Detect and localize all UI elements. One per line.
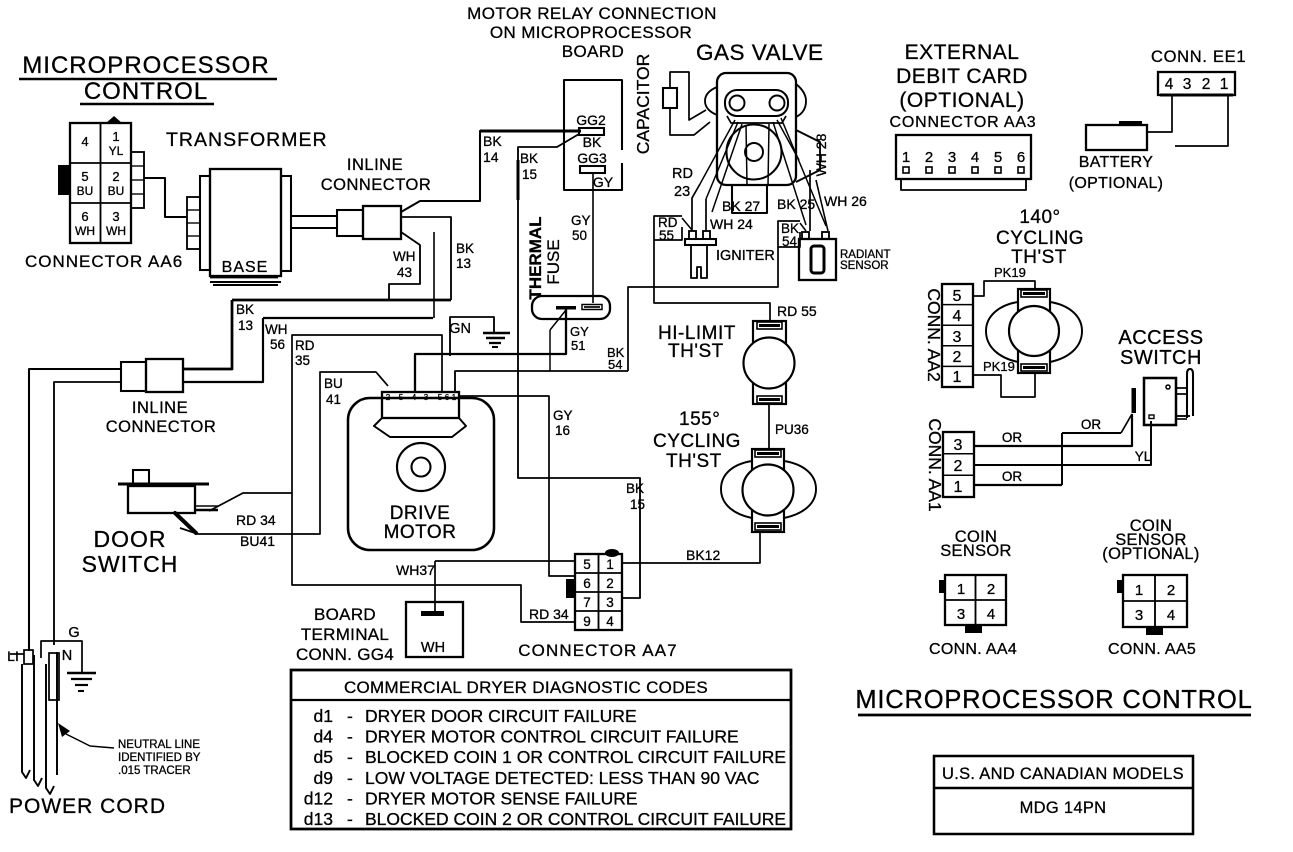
label 155 CYCLING TH'ST bbox=[653, 409, 741, 472]
svg-text:d12: d12 bbox=[304, 788, 333, 808]
svg-text:d5: d5 bbox=[314, 747, 333, 767]
svg-text:3: 3 bbox=[424, 393, 429, 402]
svg-text:SENSOR: SENSOR bbox=[940, 542, 1011, 560]
svg-text:EXTERNAL: EXTERNAL bbox=[905, 41, 1020, 64]
svg-text:d1: d1 bbox=[314, 706, 333, 726]
svg-text:G: G bbox=[68, 625, 79, 641]
svg-text:35: 35 bbox=[295, 353, 310, 368]
svg-text:2: 2 bbox=[954, 458, 963, 475]
svg-text:155°: 155° bbox=[679, 409, 720, 430]
svg-text:CONN. AA1: CONN. AA1 bbox=[925, 418, 945, 511]
svg-text:3: 3 bbox=[1183, 76, 1192, 93]
wire WH56 bbox=[183, 232, 434, 382]
label MOTOR RELAY CONNECTION ON MICROPROCESSOR BOARD bbox=[467, 4, 717, 61]
svg-text:4: 4 bbox=[1165, 76, 1174, 93]
svg-text:3: 3 bbox=[957, 606, 965, 623]
wire WH37 bbox=[396, 561, 574, 611]
wire BK15 bbox=[518, 134, 645, 598]
wire WH26 bbox=[816, 180, 867, 231]
svg-text:INLINE: INLINE bbox=[132, 399, 188, 417]
svg-text:d9: d9 bbox=[314, 768, 333, 788]
label COIN SENSOR bbox=[940, 528, 1011, 560]
svg-text:MOTOR: MOTOR bbox=[384, 522, 457, 543]
svg-text:DRIVE: DRIVE bbox=[390, 503, 451, 524]
svg-text:RD: RD bbox=[672, 166, 693, 182]
svg-text:RD 55: RD 55 bbox=[777, 303, 817, 319]
board terminal GG2 bbox=[576, 112, 606, 150]
svg-text:DEBIT CARD: DEBIT CARD bbox=[896, 65, 1028, 88]
svg-text:140°: 140° bbox=[1019, 207, 1060, 228]
svg-text:BK: BK bbox=[583, 134, 602, 150]
svg-text:DRYER MOTOR CONTROL CIRCUIT FA: DRYER MOTOR CONTROL CIRCUIT FAILURE bbox=[365, 727, 739, 747]
svg-text:16: 16 bbox=[555, 423, 570, 438]
svg-text:SENSOR: SENSOR bbox=[840, 260, 889, 272]
svg-text:SWITCH: SWITCH bbox=[1120, 347, 1202, 369]
svg-text:3: 3 bbox=[1135, 607, 1143, 624]
svg-text:(OPTIONAL): (OPTIONAL) bbox=[1102, 545, 1199, 563]
svg-text:CONNECTOR AA6: CONNECTOR AA6 bbox=[25, 252, 183, 271]
gas valve right lobe bbox=[796, 130, 820, 182]
svg-text:6: 6 bbox=[81, 209, 88, 224]
svg-text:13: 13 bbox=[238, 318, 253, 333]
wire PK19 upper (AA2 pin5 to 140 thst) bbox=[973, 265, 1035, 296]
wire OR (AA1 pin1) and riser bbox=[973, 414, 1132, 485]
svg-text:(OPTIONAL): (OPTIONAL) bbox=[1069, 175, 1164, 192]
access switch body bbox=[1132, 369, 1194, 425]
svg-text:4: 4 bbox=[987, 606, 995, 623]
label CONN. AA4 bbox=[929, 641, 1017, 658]
wire RD35 bbox=[292, 335, 442, 493]
svg-text:COMMERCIAL DRYER DIAGNOSTIC CO: COMMERCIAL DRYER DIAGNOSTIC CODES bbox=[344, 678, 708, 697]
label GAS VALVE bbox=[696, 40, 823, 65]
wire RD55 to hi-limit bbox=[654, 240, 817, 322]
connector AA6 grid bbox=[70, 123, 131, 243]
svg-text:WH: WH bbox=[75, 224, 95, 238]
svg-text:CONN. AA5: CONN. AA5 bbox=[1108, 641, 1196, 658]
wire transformer to inline connector bbox=[291, 216, 337, 228]
svg-text:MICROPROCESSOR: MICROPROCESSOR bbox=[22, 52, 269, 79]
svg-text:1: 1 bbox=[112, 129, 119, 144]
svg-text:BU: BU bbox=[77, 184, 94, 198]
gas valve lower pipe bbox=[732, 185, 767, 213]
svg-text:IGNITER: IGNITER bbox=[716, 248, 775, 264]
label INLINE CONNECTOR (upper) bbox=[321, 156, 432, 194]
wire RD34 (door switch to AA7 pin9) bbox=[209, 493, 575, 622]
svg-text:WH 24: WH 24 bbox=[710, 216, 753, 232]
title MICROPROCESSOR CONTROL (bottom right) bbox=[855, 686, 1252, 715]
coin sensor connector AA5 bbox=[1117, 575, 1187, 635]
svg-text:.015 TRACER: .015 TRACER bbox=[118, 765, 191, 777]
transformer BASE label bbox=[210, 259, 281, 285]
svg-text:SWITCH: SWITCH bbox=[82, 551, 179, 577]
transformer T1 body bbox=[187, 169, 291, 276]
inline connector (door) body bbox=[121, 359, 183, 392]
connector AA7 bbox=[566, 549, 622, 630]
svg-text:3: 3 bbox=[953, 329, 962, 346]
svg-text:IDENTIFIED BY: IDENTIFIED BY bbox=[118, 752, 201, 764]
connector AA6 side tab bbox=[131, 152, 144, 208]
wire PK19 lower (AA2 pin1 to 140 thst) bbox=[973, 359, 1035, 397]
svg-text:-: - bbox=[347, 768, 353, 788]
label THERMAL FUSE (vertical) bbox=[526, 216, 563, 299]
svg-text:4: 4 bbox=[412, 393, 417, 402]
svg-text:1: 1 bbox=[452, 393, 457, 402]
svg-text:PK19: PK19 bbox=[994, 265, 1026, 280]
svg-text:WH 26: WH 26 bbox=[824, 193, 867, 209]
svg-text:CONNECTOR: CONNECTOR bbox=[106, 418, 217, 436]
svg-text:55: 55 bbox=[659, 228, 674, 243]
svg-text:WH37: WH37 bbox=[396, 562, 435, 578]
label CONN. AA2 (vertical) bbox=[924, 288, 944, 381]
connector EE1 bbox=[1158, 72, 1235, 95]
wire EE1 pin4 to battery bbox=[1147, 95, 1172, 132]
svg-text:GG3: GG3 bbox=[577, 150, 607, 166]
svg-text:GY: GY bbox=[570, 324, 589, 339]
svg-text:15: 15 bbox=[630, 497, 645, 512]
svg-text:5: 5 bbox=[399, 393, 404, 402]
svg-text:4: 4 bbox=[953, 308, 962, 325]
svg-text:41: 41 bbox=[326, 392, 341, 407]
svg-text:TERMINAL: TERMINAL bbox=[301, 625, 389, 644]
svg-text:LOW VOLTAGE DETECTED: LESS THA: LOW VOLTAGE DETECTED: LESS THAN 90 VAC bbox=[365, 768, 760, 788]
radiant sensor bbox=[799, 232, 890, 280]
label CONNECTOR AA7 bbox=[518, 641, 677, 660]
svg-text:23: 23 bbox=[674, 184, 690, 200]
connector AA3 body bbox=[896, 135, 1031, 190]
svg-text:CONN. EE1: CONN. EE1 bbox=[1151, 48, 1246, 66]
svg-text:5: 5 bbox=[583, 557, 591, 572]
svg-text:BK: BK bbox=[236, 302, 254, 317]
label 140 CYCLING TH'ST bbox=[996, 207, 1084, 268]
gas valve wire fan bbox=[700, 118, 826, 226]
svg-text:RD: RD bbox=[295, 338, 315, 353]
connector AA1 bbox=[943, 432, 974, 497]
wire GY51 leader and label bbox=[550, 310, 589, 371]
svg-text:WH: WH bbox=[393, 249, 416, 264]
label HI-LIMIT TH'ST bbox=[658, 323, 736, 362]
wire BK54 to bus bbox=[607, 247, 778, 372]
wire WH43 bbox=[389, 232, 420, 300]
svg-text:ON MICROPROCESSOR: ON MICROPROCESSOR bbox=[490, 23, 692, 42]
svg-text:BK: BK bbox=[626, 481, 644, 496]
svg-text:TH'ST: TH'ST bbox=[668, 341, 724, 362]
svg-text:14: 14 bbox=[483, 149, 499, 165]
label CONN. AA1 (vertical) bbox=[925, 418, 945, 511]
svg-text:56: 56 bbox=[270, 337, 285, 352]
svg-text:-: - bbox=[347, 727, 353, 747]
GN ground symbol bbox=[449, 317, 510, 356]
svg-text:2: 2 bbox=[1202, 76, 1211, 93]
igniter bbox=[685, 231, 775, 278]
label EXTERNAL DEBIT CARD (OPTIONAL) CONNECTOR AA3 bbox=[889, 41, 1036, 131]
svg-text:-: - bbox=[347, 809, 353, 829]
drive motor pin numbers bbox=[386, 393, 457, 402]
svg-text:BASE: BASE bbox=[222, 259, 269, 276]
svg-text:54: 54 bbox=[608, 357, 622, 372]
svg-text:GG2: GG2 bbox=[576, 112, 606, 128]
svg-text:6: 6 bbox=[445, 393, 450, 402]
svg-text:BOARD: BOARD bbox=[562, 42, 624, 61]
svg-text:BLOCKED COIN 1 OR CONTROL CIRC: BLOCKED COIN 1 OR CONTROL CIRCUIT FAILUR… bbox=[365, 747, 786, 767]
hi-limit thermostat bbox=[744, 321, 795, 404]
svg-text:2: 2 bbox=[987, 581, 995, 598]
wire bus BK to board (y300) bbox=[183, 300, 451, 369]
svg-text:BK 27: BK 27 bbox=[722, 198, 760, 214]
svg-text:BK 25: BK 25 bbox=[777, 196, 815, 212]
svg-text:RD 34: RD 34 bbox=[529, 606, 569, 622]
label CONN. AA5 bbox=[1108, 641, 1196, 658]
wire EE1 pin1 to battery bbox=[1175, 95, 1228, 146]
svg-text:2: 2 bbox=[953, 349, 962, 366]
svg-text:4: 4 bbox=[971, 149, 979, 166]
svg-text:3: 3 bbox=[606, 595, 614, 610]
diagnostic codes table bbox=[291, 670, 791, 829]
wire BK25 bbox=[777, 170, 815, 231]
svg-text:POWER CORD: POWER CORD bbox=[9, 795, 166, 818]
wire BK27 bbox=[722, 198, 760, 214]
capacitor C1 body and leads bbox=[663, 72, 710, 135]
gas valve body bbox=[717, 73, 796, 185]
svg-text:GY: GY bbox=[553, 408, 573, 423]
svg-text:MOTOR RELAY CONNECTION: MOTOR RELAY CONNECTION bbox=[467, 4, 717, 23]
title MICROPROCESSOR CONTROL (top left) bbox=[19, 52, 277, 105]
svg-text:CONNECTOR: CONNECTOR bbox=[321, 176, 432, 194]
svg-text:BU: BU bbox=[108, 184, 125, 198]
svg-text:4: 4 bbox=[1167, 607, 1175, 624]
svg-text:-: - bbox=[347, 788, 353, 808]
svg-text:CONN. AA2: CONN. AA2 bbox=[924, 288, 944, 381]
svg-text:1: 1 bbox=[957, 581, 965, 598]
svg-text:d4: d4 bbox=[314, 727, 334, 747]
svg-text:GN: GN bbox=[449, 321, 471, 337]
svg-text:1: 1 bbox=[1135, 582, 1143, 599]
svg-text:5: 5 bbox=[953, 288, 962, 305]
svg-text:3: 3 bbox=[112, 209, 119, 224]
wire PU36 bbox=[769, 404, 809, 449]
svg-text:INLINE: INLINE bbox=[347, 156, 403, 174]
svg-text:NEUTRAL LINE: NEUTRAL LINE bbox=[118, 739, 200, 751]
label COIN SENSOR (OPTIONAL) bbox=[1102, 517, 1199, 563]
svg-text:DOOR: DOOR bbox=[94, 526, 167, 552]
svg-text:1: 1 bbox=[606, 557, 614, 572]
svg-text:MICROPROCESSOR CONTROL: MICROPROCESSOR CONTROL bbox=[855, 686, 1252, 714]
svg-text:WH: WH bbox=[421, 640, 445, 656]
svg-text:5: 5 bbox=[81, 169, 88, 184]
power cord body bbox=[10, 650, 59, 794]
svg-text:BU41: BU41 bbox=[240, 533, 275, 549]
svg-text:13: 13 bbox=[456, 256, 471, 271]
svg-text:1: 1 bbox=[902, 149, 910, 166]
label CONNECTOR AA6 bbox=[25, 252, 183, 271]
svg-text:DRYER MOTOR SENSE FAILURE: DRYER MOTOR SENSE FAILURE bbox=[365, 788, 638, 808]
svg-text:2: 2 bbox=[606, 576, 614, 591]
wire bus y371 bbox=[455, 371, 628, 392]
label CAPACITOR (vertical) bbox=[633, 54, 653, 154]
svg-text:CONTROL: CONTROL bbox=[84, 78, 208, 105]
svg-text:DRYER DOOR CIRCUIT FAILURE: DRYER DOOR CIRCUIT FAILURE bbox=[365, 706, 637, 726]
battery (optional) bbox=[1069, 121, 1164, 192]
svg-text:BU: BU bbox=[324, 376, 343, 391]
svg-text:N: N bbox=[62, 648, 72, 664]
svg-text:2: 2 bbox=[112, 169, 119, 184]
svg-text:15: 15 bbox=[522, 167, 537, 182]
wire WH28 label (vertical) bbox=[813, 133, 829, 176]
board terminal GG3 bbox=[577, 150, 614, 190]
svg-text:GAS VALVE: GAS VALVE bbox=[696, 40, 823, 65]
wire motor to AA7 pin6 (GY16) bbox=[459, 396, 575, 576]
label TRANSFORMER bbox=[166, 129, 328, 151]
svg-text:THERMAL: THERMAL bbox=[526, 216, 545, 299]
svg-text:WH 28: WH 28 bbox=[813, 133, 829, 176]
svg-text:OR: OR bbox=[1081, 417, 1102, 432]
label INLINE CONNECTOR (door) bbox=[106, 399, 217, 436]
svg-text:TRANSFORMER: TRANSFORMER bbox=[166, 129, 328, 151]
wire thermal fuse left to bus bbox=[415, 309, 566, 392]
svg-text:5: 5 bbox=[994, 149, 1002, 166]
inline connector (upper) body bbox=[337, 206, 401, 239]
svg-text:CAPACITOR: CAPACITOR bbox=[633, 54, 653, 154]
svg-text:TH'ST: TH'ST bbox=[666, 451, 722, 472]
svg-text:BK: BK bbox=[456, 241, 474, 256]
power cord terminals bbox=[7, 625, 82, 673]
svg-text:CONNECTOR AA3: CONNECTOR AA3 bbox=[889, 114, 1036, 131]
svg-text:51: 51 bbox=[571, 338, 585, 353]
svg-text:BK12: BK12 bbox=[686, 547, 720, 563]
svg-text:4: 4 bbox=[606, 614, 614, 629]
svg-text:PK19: PK19 bbox=[983, 359, 1015, 374]
svg-text:-: - bbox=[347, 706, 353, 726]
svg-text:RD 34: RD 34 bbox=[236, 512, 276, 528]
label DRIVE MOTOR bbox=[384, 503, 457, 543]
svg-text:WH: WH bbox=[265, 322, 288, 337]
microprocessor board outline bbox=[564, 80, 622, 190]
wire BK13 drop bbox=[401, 217, 474, 300]
svg-text:GY: GY bbox=[571, 213, 591, 228]
svg-text:U.S. AND CANADIAN MODELS: U.S. AND CANADIAN MODELS bbox=[942, 765, 1184, 783]
svg-text:YL: YL bbox=[109, 144, 124, 158]
svg-text:54: 54 bbox=[782, 234, 798, 249]
svg-text:WH: WH bbox=[106, 224, 126, 238]
callout RD 55 at igniter bbox=[654, 215, 692, 243]
wire AA6 to transformer bbox=[144, 178, 187, 217]
power cord ground bbox=[67, 673, 96, 691]
svg-text:5: 5 bbox=[438, 393, 443, 402]
svg-text:BK: BK bbox=[483, 133, 502, 149]
svg-text:3: 3 bbox=[954, 437, 963, 454]
155 cycling thermostat bbox=[721, 449, 816, 532]
svg-text:OR: OR bbox=[1002, 430, 1023, 445]
svg-text:2: 2 bbox=[386, 393, 391, 402]
svg-text:CONNECTOR AA7: CONNECTOR AA7 bbox=[518, 641, 677, 660]
svg-text:BATTERY: BATTERY bbox=[1079, 154, 1153, 171]
callout BK 54 at radiant sensor bbox=[778, 221, 806, 249]
wire YL (AA1 pin2 to switch) bbox=[973, 421, 1152, 465]
svg-text:43: 43 bbox=[397, 265, 412, 280]
label BOARD TERMINAL CONN. GG4 bbox=[296, 605, 394, 664]
svg-text:-: - bbox=[347, 747, 353, 767]
models box U.S. AND CANADIAN MODELS / MDG 14PN bbox=[934, 756, 1193, 834]
wire RD23 bbox=[672, 166, 700, 231]
wire GY50 bbox=[571, 173, 593, 303]
svg-text:2: 2 bbox=[925, 149, 933, 166]
door switch bbox=[118, 470, 218, 533]
label ACCESS SWITCH bbox=[1118, 327, 1203, 369]
connector AA6 latch (black) bbox=[58, 116, 122, 195]
drive motor pulley bbox=[397, 443, 445, 491]
svg-text:6: 6 bbox=[583, 576, 591, 591]
gas valve side ears bbox=[705, 84, 806, 117]
wire WH24 bbox=[706, 199, 753, 232]
svg-text:LI: LI bbox=[7, 648, 19, 664]
svg-text:BLOCKED COIN 2 OR CONTROL CIRC: BLOCKED COIN 2 OR CONTROL CIRCUIT FAILUR… bbox=[365, 809, 786, 829]
svg-text:BOARD: BOARD bbox=[314, 605, 376, 624]
140 cycling thermostat bbox=[986, 289, 1082, 373]
svg-text:6: 6 bbox=[1017, 149, 1025, 166]
svg-text:d13: d13 bbox=[304, 809, 333, 829]
wire BK14 bbox=[401, 131, 581, 212]
svg-text:GY: GY bbox=[593, 174, 614, 190]
label CONN. EE1 bbox=[1151, 48, 1246, 66]
svg-text:(OPTIONAL): (OPTIONAL) bbox=[899, 89, 1024, 112]
svg-text:4: 4 bbox=[81, 134, 88, 149]
svg-text:1: 1 bbox=[1220, 76, 1229, 93]
wire power to inline connector (LI) bbox=[29, 369, 121, 651]
svg-text:YL: YL bbox=[1135, 449, 1152, 464]
svg-text:CYCLING: CYCLING bbox=[653, 431, 741, 452]
wire BK12 bbox=[622, 532, 760, 563]
svg-text:3: 3 bbox=[948, 149, 956, 166]
label POWER CORD bbox=[9, 795, 166, 818]
label DOOR SWITCH bbox=[82, 526, 179, 577]
svg-text:PU36: PU36 bbox=[775, 422, 809, 437]
svg-text:OR: OR bbox=[1002, 469, 1023, 484]
power cord neutral arrow bbox=[58, 723, 201, 777]
svg-text:ACCESS: ACCESS bbox=[1118, 327, 1203, 349]
svg-text:CYCLING: CYCLING bbox=[996, 228, 1084, 249]
svg-text:1: 1 bbox=[953, 369, 962, 386]
svg-text:2: 2 bbox=[1167, 582, 1175, 599]
wire OR (AA1 pin3) bbox=[973, 414, 1132, 446]
svg-text:CONN. AA4: CONN. AA4 bbox=[929, 641, 1017, 658]
svg-text:MDG 14PN: MDG 14PN bbox=[1020, 799, 1107, 817]
svg-text:BK: BK bbox=[520, 151, 538, 166]
wire BU41 (door switch to motor) bbox=[180, 372, 388, 549]
svg-text:FUSE: FUSE bbox=[544, 239, 563, 284]
board terminal WH box bbox=[406, 602, 463, 657]
wire power to inline connector (N) bbox=[54, 382, 121, 645]
svg-text:9: 9 bbox=[583, 614, 591, 629]
svg-text:50: 50 bbox=[572, 228, 587, 243]
connector AA2 bbox=[942, 284, 973, 387]
thermal fuse body bbox=[532, 296, 610, 319]
drive motor body bbox=[348, 392, 494, 550]
coin sensor connector AA4 bbox=[939, 575, 1006, 633]
svg-text:1: 1 bbox=[954, 479, 963, 496]
svg-text:CONN. GG4: CONN. GG4 bbox=[296, 645, 394, 664]
svg-text:7: 7 bbox=[583, 595, 591, 610]
